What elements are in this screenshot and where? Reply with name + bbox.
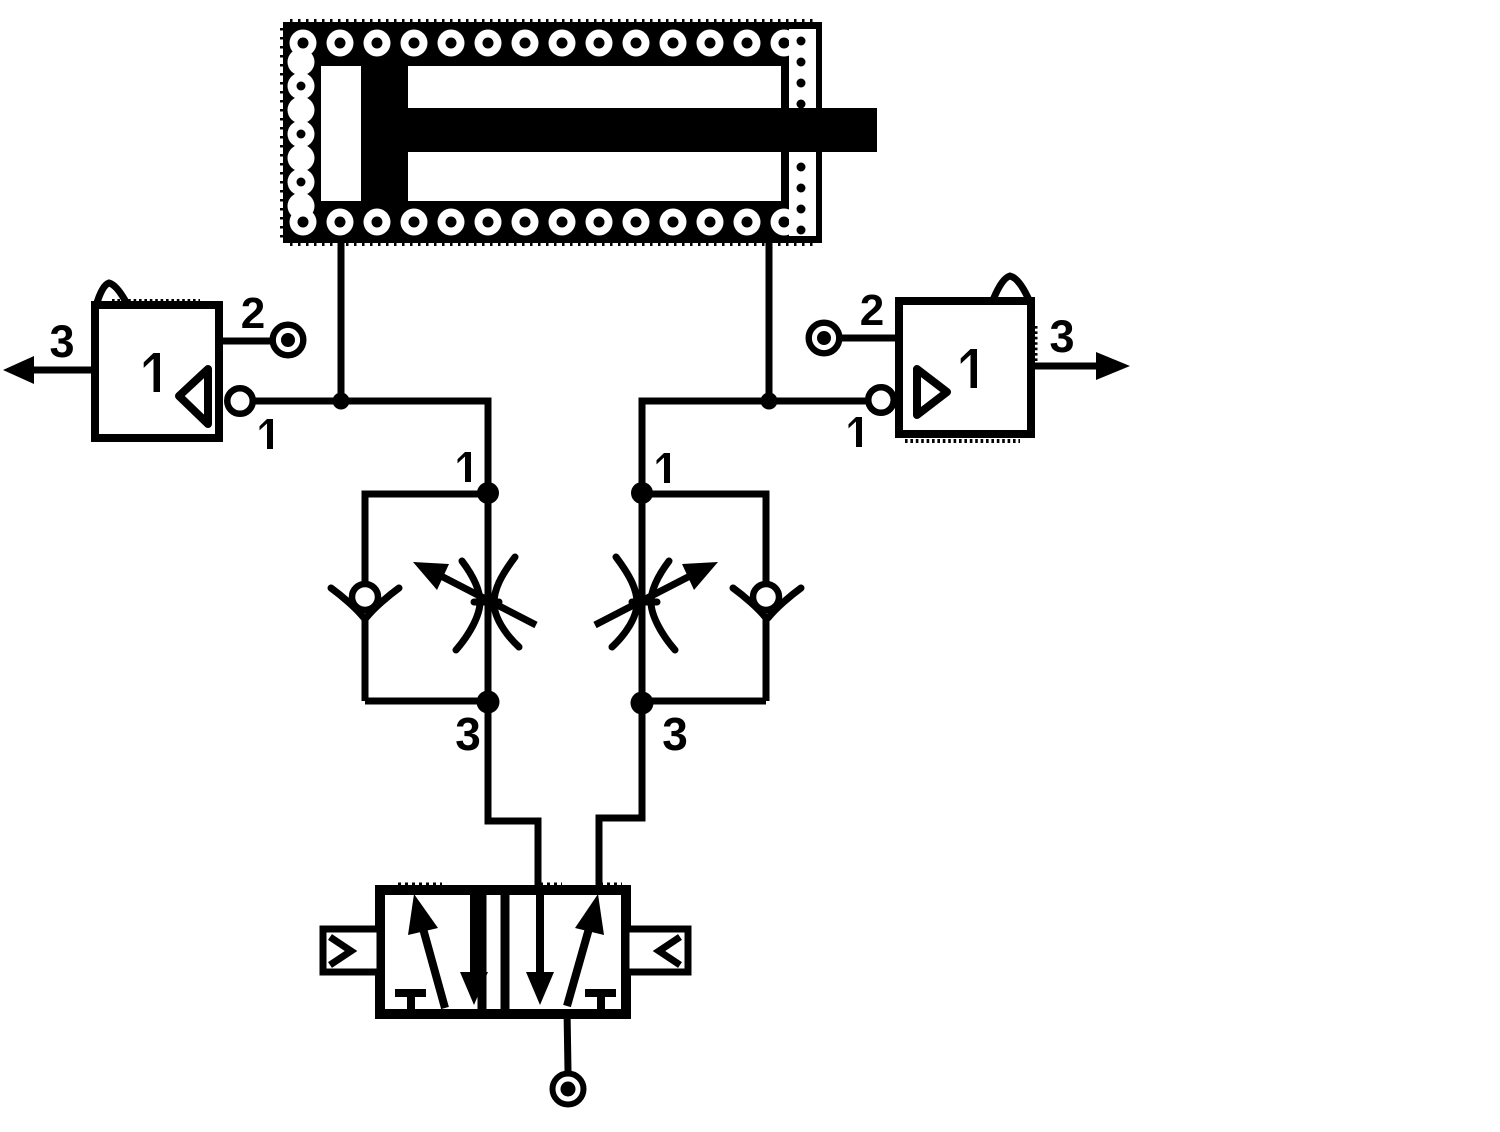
cylinder right end cap band [789, 29, 816, 236]
svg-text:2: 2 [241, 289, 265, 338]
flow control FC2 node 1 [631, 482, 653, 504]
valve V1 dotted top edge [112, 299, 200, 303]
flow control FC2 node 3 [631, 692, 654, 715]
valve V2 spring hat [993, 276, 1029, 300]
flow control FC2 label 1 [657, 453, 671, 483]
wire FC1 to valve V3 left inlet [488, 702, 538, 888]
svg-text:3: 3 [1049, 311, 1074, 362]
valve V3 left pilot tab [323, 929, 380, 972]
valve V2 port 2 plug (circle-dot) [809, 323, 840, 354]
valve V3 right chamber down arrow [526, 893, 554, 1005]
valve V2 check triangle [917, 369, 947, 415]
wire FC2 to valve V3 right inlet [599, 703, 642, 888]
valve V3 left chamber diagonal arrow [408, 894, 445, 1008]
valve V3 left chamber down arrow [460, 893, 488, 1005]
svg-text:3: 3 [455, 708, 481, 760]
svg-text:3: 3 [662, 708, 688, 760]
wire cylinder left port down [338, 243, 345, 401]
piston rod [408, 108, 877, 152]
valve V1 label 1 [144, 353, 160, 392]
piston [361, 62, 408, 205]
node B (junction right) [761, 393, 778, 410]
svg-text:3: 3 [49, 316, 74, 367]
valve V2 port 3 line [1031, 363, 1096, 370]
wire cylinder right port down [766, 243, 773, 401]
valve V3 scan dots top [398, 883, 622, 886]
quick exhaust valve V2 body [899, 301, 1031, 434]
valve V3 body [380, 890, 626, 1014]
valve V2 dotted bottom edge [905, 439, 1020, 443]
quick exhaust valve V1 body [95, 305, 219, 438]
flow control FC1 node 3 [477, 691, 500, 714]
cylinder (double-acting, top) [282, 21, 878, 245]
valve V2 port 1 label [849, 417, 863, 447]
valve V2 port 1 circle [868, 387, 894, 413]
valve V1 port 1 circle [227, 388, 253, 414]
flow control FC2 throttle arcs [612, 557, 675, 650]
valve V2 port 2 line [842, 335, 899, 342]
valve V3 right pilot tab [626, 929, 688, 972]
flow control FC1 adjust arrow [413, 562, 536, 625]
valve V2 label 1 [961, 349, 977, 388]
wire right branch: flow control to node B to valve V2 port1 [642, 401, 866, 493]
valve V3 chamber divider [482, 890, 505, 1014]
flow control FC2 bypass loop [642, 494, 766, 701]
flow control FC2 main line [639, 493, 646, 818]
valve V1 port 3 exhaust arrow [3, 356, 34, 384]
valve V3 manual actuator stem [567, 1009, 568, 1071]
valve V1 port 2 plug (circle-dot) [273, 325, 304, 356]
node A (junction left) [333, 393, 350, 410]
cylinder barrel chain pattern [288, 30, 798, 236]
valve V3 right chamber diagonal arrow [567, 894, 604, 1006]
flow control FC2 adjust arrow [595, 562, 718, 625]
cylinder outer serration ticks [290, 19, 816, 22]
flow control FC1 throttle arcs [456, 557, 519, 650]
wire left branch: valve V1 port1 to node A to flow control [253, 401, 488, 493]
valve V3 left chamber blocked port T [395, 993, 426, 1010]
valve V3 manual actuator button (circle-dot) [553, 1074, 584, 1105]
flow control FC1 main line [485, 493, 492, 821]
svg-text:2: 2 [860, 286, 884, 335]
valve V1 port 2 line [219, 338, 271, 345]
flow control FC2 check valve seat [733, 588, 801, 618]
flow control FC1 node 1 [477, 482, 499, 504]
flow control FC1 bypass loop [365, 494, 488, 701]
valve V2 dotted right edge [1035, 326, 1038, 364]
flow control FC1 label 1 [458, 452, 472, 482]
flow control FC2 check valve ball [753, 584, 779, 610]
flow control FC1 check valve ball [352, 584, 378, 610]
valve V1 spring hat [96, 283, 127, 306]
valve V1 port 1 label [260, 419, 274, 449]
valve V1 port 3 line [34, 367, 95, 374]
flow control FC1 check valve seat [331, 588, 399, 618]
valve V1 check triangle [179, 369, 208, 424]
valve V2 port 3 exhaust arrow [1096, 352, 1130, 380]
valve V3 right chamber blocked port T [585, 993, 616, 1010]
